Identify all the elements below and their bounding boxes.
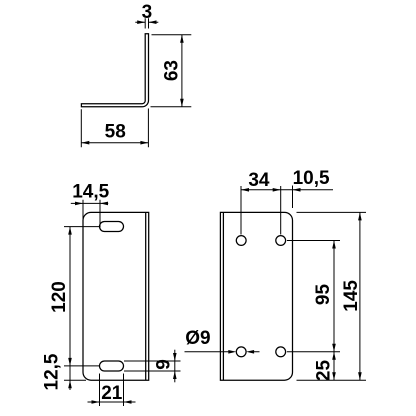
- dimension 145 arrow down: [358, 372, 362, 380]
- dimension 25 line: [333, 352, 335, 380]
- dimension 21 arrow right: [92, 400, 100, 404]
- dimension 9 line: [174, 350, 176, 383]
- dimension 95 extension lines: [287, 241, 340, 352]
- label diameter 9 arrow left: [246, 350, 254, 354]
- svg-text:14,5: 14,5: [72, 181, 109, 202]
- svg-text:95: 95: [313, 284, 334, 306]
- dimension 34 extension lines: [241, 186, 281, 235]
- dimension 145 arrow up: [358, 212, 362, 220]
- dimension 14,5 arrow left: [100, 202, 108, 206]
- dimension 58 line: [81, 142, 148, 144]
- dimension 10,5 extension line: [292, 186, 294, 209]
- svg-text:21: 21: [101, 383, 123, 404]
- svg-text:120: 120: [49, 281, 70, 313]
- svg-text:3: 3: [142, 2, 153, 23]
- side view: bend line: [222, 212, 224, 380]
- dimension 25 arrow up: [332, 352, 336, 360]
- dimension 145 line: [359, 212, 361, 380]
- svg-text:34: 34: [248, 170, 270, 191]
- dimension 25 arrow down: [332, 372, 336, 380]
- dimension 34 arrow left: [241, 188, 249, 192]
- dimension 34 arrow right: [273, 188, 281, 192]
- front view: bend line: [145, 212, 147, 380]
- svg-text:12,5: 12,5: [42, 353, 63, 390]
- front view: slotted plate outline: [83, 212, 149, 380]
- svg-text:25: 25: [314, 360, 335, 382]
- dimension 10,5 arrow left: [293, 188, 301, 192]
- side view: drilled plate outline: [220, 212, 292, 380]
- dimension 9 arrow up: [173, 371, 177, 379]
- dimension 9 arrow down: [173, 353, 177, 361]
- dimension 95 line: [333, 241, 335, 352]
- dimension 12,5 arrow up: [68, 380, 72, 388]
- dimension 9 extension lines: [124, 361, 181, 371]
- dimension 3 arrow right: [137, 20, 145, 24]
- dimension 21 extension lines: [100, 374, 124, 407]
- dimension 14,5 line: [71, 202, 108, 204]
- dimension 58 arrow left: [81, 141, 89, 145]
- dimension 14,5 extension lines: [83, 200, 100, 228]
- dimension 63 line: [181, 35, 183, 107]
- dimension 21 arrow left: [124, 400, 132, 404]
- dimension 3 (thickness) extension lines: [145, 18, 148, 28]
- dimension 10,5 line: [281, 189, 333, 191]
- dimension 63 arrow down: [180, 99, 184, 107]
- hole top-left: [236, 236, 246, 246]
- dimension 58 extension lines: [81, 109, 148, 148]
- dimension 145 extension lines: [297, 212, 367, 380]
- dimension 12,5 extension line: [64, 379, 86, 381]
- dimension 95 arrow up: [332, 241, 336, 249]
- svg-text:10,5: 10,5: [293, 168, 330, 189]
- dimension 63 arrow up: [180, 35, 184, 43]
- label diameter 9 leader line: [185, 351, 260, 353]
- hole bottom-right: [276, 347, 286, 357]
- dimension 63 extension lines: [151, 35, 192, 107]
- svg-text:58: 58: [105, 122, 126, 143]
- label diameter 9 arrow right: [228, 350, 236, 354]
- top slot: [100, 222, 124, 232]
- dimension 58 arrow right: [140, 141, 148, 145]
- dimension 3 lines: [135, 21, 158, 23]
- top view: L-profile outline: [81, 34, 148, 107]
- dimension 120 arrow down: [68, 358, 72, 366]
- dimension 120 line (continues as 12,5): [69, 227, 71, 390]
- dimension 95 arrow down: [332, 344, 336, 352]
- dimension 14,5 arrow right: [75, 202, 83, 206]
- dimension 3 arrow left: [149, 20, 157, 24]
- dimension 21 line: [88, 401, 136, 403]
- dimension 120 arrow up: [68, 227, 72, 235]
- hole top-right: [276, 236, 286, 246]
- dimension 120 extension lines: [64, 227, 100, 366]
- bottom slot: [100, 361, 124, 371]
- dimension 34 line: [241, 189, 281, 191]
- hole bottom-left: [236, 347, 246, 357]
- svg-text:Ø9: Ø9: [185, 328, 210, 349]
- svg-text:145: 145: [341, 280, 362, 312]
- svg-text:9: 9: [153, 359, 174, 370]
- svg-text:63: 63: [161, 60, 182, 81]
